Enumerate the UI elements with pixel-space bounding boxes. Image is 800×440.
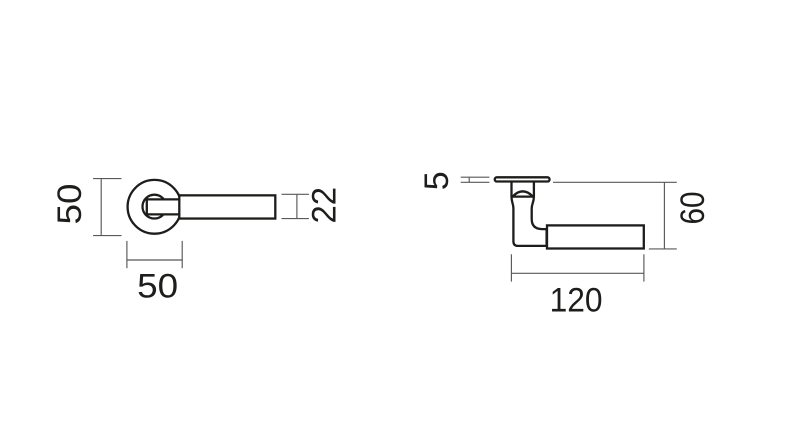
handle neck and elbow outline (side view) bbox=[512, 182, 547, 246]
rose plate (side view) bbox=[495, 177, 550, 181]
dimension 60: bottom extension tick bbox=[649, 248, 677, 250]
dimension 60: top extension line bbox=[553, 181, 677, 183]
dimension 50 vertical: top extension tick bbox=[93, 178, 121, 180]
dimension 22: bottom extension tick bbox=[282, 218, 309, 220]
dimension 50 vertical: dimension line bbox=[100, 179, 102, 236]
dimension 50 horizontal: right extension line bbox=[181, 241, 183, 268]
spindle neck rectangle (front view) bbox=[147, 199, 180, 214]
dimension 5: dimension line bbox=[468, 177, 470, 182]
collar bottom edge (side view) bbox=[512, 195, 534, 197]
svg-text:120: 120 bbox=[550, 281, 603, 319]
lever grip (side view) bbox=[547, 225, 644, 248]
svg-text:60: 60 bbox=[674, 192, 712, 225]
dimension 22: dimension line bbox=[296, 194, 298, 218]
dimension 50 vertical: bottom extension tick bbox=[93, 235, 121, 237]
neck inner circle (front view) bbox=[143, 195, 167, 219]
dimension 5: top extension tick bbox=[461, 176, 490, 178]
dimension 22: top extension tick bbox=[282, 193, 309, 195]
dimension 120: dimension line bbox=[511, 272, 644, 274]
dimension 50 horizontal: left extension line bbox=[126, 241, 128, 268]
svg-text:22: 22 bbox=[305, 187, 343, 224]
svg-text:50: 50 bbox=[51, 184, 89, 225]
dimension 120: left extension line bbox=[510, 254, 512, 281]
rose outer circle (front view) bbox=[128, 180, 182, 234]
lever grip bar (front view) bbox=[179, 195, 275, 218]
dimension 60: dimension line bbox=[663, 182, 665, 249]
svg-text:50: 50 bbox=[137, 267, 178, 305]
dimension 50 horizontal: dimension line bbox=[127, 259, 182, 261]
dimension 5: bottom extension tick bbox=[461, 181, 490, 183]
collar dome arc (side view) bbox=[513, 191, 533, 196]
svg-text:5: 5 bbox=[418, 171, 456, 190]
dimension 120: right extension line bbox=[643, 254, 645, 281]
